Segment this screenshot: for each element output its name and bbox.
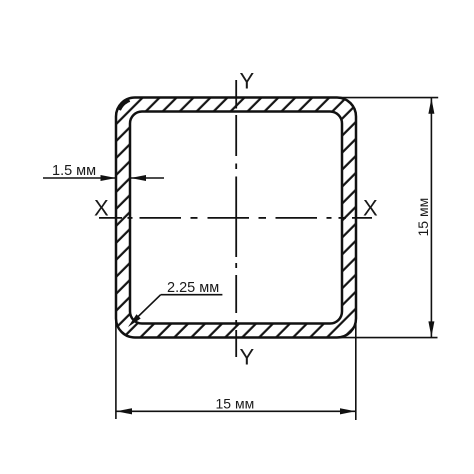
horizontal centre line X-X xyxy=(99,217,372,219)
tube outer contour xyxy=(116,98,356,338)
svg-text:X: X xyxy=(363,195,378,220)
svg-text:2.25 мм: 2.25 мм xyxy=(167,280,219,296)
vertical centre line Y-Y xyxy=(235,80,237,357)
top-left corner double-arc artifact xyxy=(119,100,129,110)
svg-text:Y: Y xyxy=(240,69,255,94)
svg-text:X: X xyxy=(94,195,109,220)
svg-text:15 мм: 15 мм xyxy=(216,396,255,412)
right height dimension 15 mm xyxy=(340,98,438,338)
svg-text:Y: Y xyxy=(240,345,255,370)
tube wall hatched region xyxy=(116,98,356,338)
svg-text:15 мм: 15 мм xyxy=(415,198,431,237)
1.5 mm wall thickness dimension xyxy=(43,177,164,179)
bottom width dimension 15 mm xyxy=(116,318,356,420)
2.25 mm corner radius leader xyxy=(132,295,222,323)
svg-text:1.5 мм: 1.5 мм xyxy=(52,163,96,179)
tube inner contour xyxy=(130,112,342,324)
